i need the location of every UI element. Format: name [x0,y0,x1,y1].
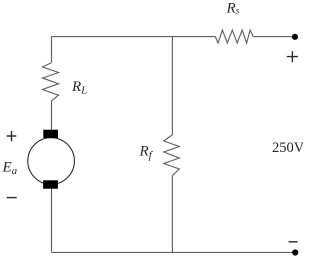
svg-text:Rs: Rs [226,1,240,17]
svg-text:Rf: Rf [139,144,154,162]
svg-text:RL: RL [71,79,87,97]
svg-text:250V: 250V [272,140,303,156]
svg-text:Ea: Ea [2,160,18,177]
